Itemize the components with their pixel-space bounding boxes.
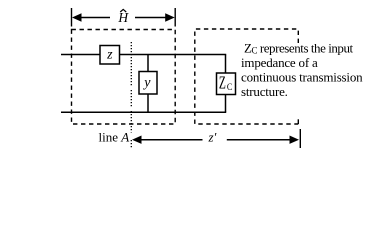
svg-text:Z: Z [219, 73, 226, 93]
wire: bottom conductor [61, 111, 226, 113]
svg-text:z: z [106, 47, 113, 62]
dimension z': shaft right segment [227, 139, 293, 141]
svg-text:y: y [142, 75, 151, 90]
series impedance box z [100, 46, 120, 65]
annotation text: Zc represents the input impedance of a continuous transmission structure. [241, 41, 363, 99]
svg-text:z′: z′ [208, 130, 217, 145]
dimension z': shaft left segment [138, 139, 203, 141]
wire: branch for Zc [225, 55, 227, 113]
svg-text:structure.: structure. [241, 84, 288, 99]
svg-text:impedance of a: impedance of a [241, 55, 318, 70]
svg-text:continuous transmission: continuous transmission [241, 69, 363, 84]
dimension z': left arrowhead [132, 136, 142, 144]
dotted reference plane (line A) [130, 42, 132, 149]
svg-text:C: C [227, 82, 232, 93]
dimension z': right tick [299, 129, 301, 148]
dimension H: right arrowhead [165, 13, 175, 21]
right dashed box: bottom-right edge stub [297, 119, 299, 124]
dimension H: left extension tick [71, 8, 73, 27]
wire: shunt branch for y [147, 55, 149, 113]
svg-text:ZC represents the input: ZC represents the input [244, 41, 354, 56]
shunt admittance box y [139, 72, 157, 95]
right dashed box (continuous structure) [195, 29, 298, 124]
dimension H: right extension tick [174, 8, 176, 27]
dimension z': right arrowhead [290, 136, 300, 144]
dimension H: shaft right segment [135, 17, 169, 19]
svg-text:line A: line A [99, 130, 130, 145]
dimension H: shaft left segment [78, 17, 110, 19]
left dashed box (one line section) [72, 30, 176, 125]
svg-text:H: H [117, 10, 129, 25]
wire: top conductor [61, 54, 226, 56]
label H-hat [117, 9, 129, 25]
dimension H: left arrowhead [72, 13, 82, 21]
input impedance box Zc [217, 73, 236, 95]
